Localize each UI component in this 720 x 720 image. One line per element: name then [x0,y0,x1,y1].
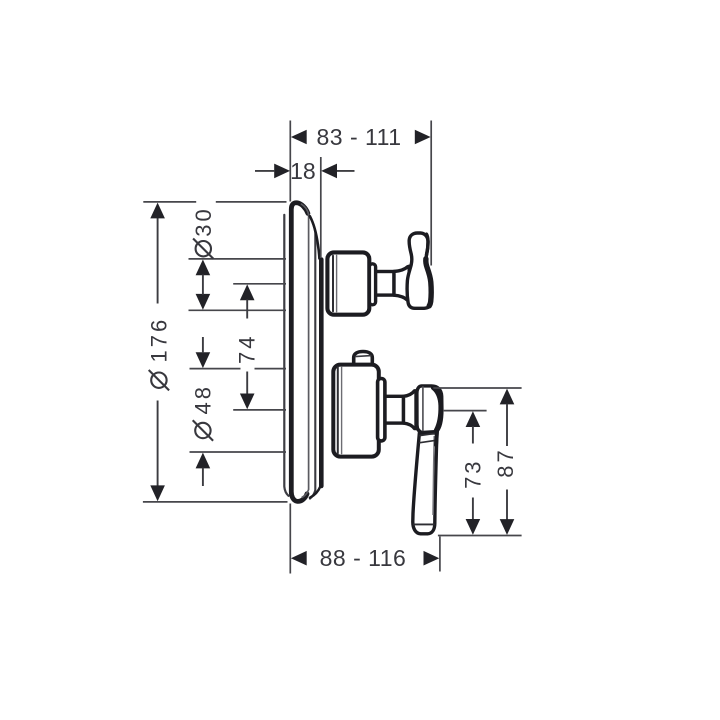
dimension D48 lower arrow [196,453,211,469]
thermostat stem [381,396,404,423]
svg-text:30: 30 [191,206,216,236]
svg-text:18: 18 [290,158,316,184]
dimension 87 label [493,447,518,477]
lever hub knob [417,386,442,433]
dimension 88-116 extension line right [439,537,441,572]
dimension 73 shafts [472,426,474,519]
dimension D176 arrow down [150,485,165,501]
dimension 88-116 arrow left [291,551,307,566]
dimension D30 label [191,206,216,259]
dimension D30 double arrow [196,260,211,310]
cross handle grip right-edge shading [426,234,431,306]
dimension D176 bottom reference line [143,501,288,503]
dimension D30 shaft [202,275,204,295]
dimension 74 bottom reference line [233,409,286,411]
dimension 18 label [290,158,316,184]
cross handle stem [375,272,395,296]
dimension D176 arrow up [150,203,165,219]
dimension D48 upper arrow [196,352,211,368]
dimension 88-116 extension line left [289,504,291,574]
thermostat flange line 2 [341,367,343,454]
escutcheon inner contour 2 [310,216,316,499]
dimension D48 shafts [202,337,204,486]
dimension D48 bottom reference line [190,451,287,453]
escutcheon front face edge [310,216,321,498]
escutcheon dome silhouette [291,203,308,502]
dimension 87 shafts [506,404,508,521]
dimension D30 top reference line [189,258,287,260]
dimension 74 arrow down [240,394,255,410]
escutcheon back plate line [284,215,288,496]
dimension 87 bottom reference line [438,535,522,537]
cross handle sleeve flange line 1 [332,256,334,311]
dimension D48 label [190,384,215,441]
dimension 18 extension line right [320,157,322,258]
dimension 73 label [460,458,485,488]
dimension 73 arrow down [466,519,481,535]
dimension 73 arrow up [466,411,481,427]
svg-text:83 - 111: 83 - 111 [317,124,402,150]
escutcheon inner contour thin [302,204,309,497]
dimension D30 bottom reference line [189,309,287,311]
svg-text:48: 48 [190,384,215,414]
cross handle sleeve flange line 2 [336,255,338,311]
cross handle sleeve nose [369,264,375,305]
svg-text:87: 87 [493,447,518,477]
dimension 87 arrow down [500,519,515,535]
dimension 83-111 label [317,124,402,150]
dimension 83-111 extension line right [430,121,432,266]
lever shaft [413,433,437,534]
dimension 74 top reference line [233,283,286,285]
dimension 74 label [234,334,259,364]
dimension D48 top reference line [190,368,287,370]
svg-text:88 - 116: 88 - 116 [320,545,407,571]
lever shaft inner right line [433,436,434,515]
thermostat body [333,365,379,457]
cross handle hub cone [394,266,409,300]
lever hub right crescent shading [433,388,441,431]
lever hub cone [404,391,417,429]
dimension D176 top reference line [143,201,286,203]
svg-text:73: 73 [460,458,485,488]
dimension 74 shafts [246,300,248,395]
dimension D176 label [146,317,171,391]
dimension 83-111 arrow right [415,130,431,145]
cross handle sleeve body [327,252,369,314]
dimension D176 shafts [157,218,159,487]
cross handle grip spindle [407,233,432,308]
thermostat flange line 1 [337,367,339,453]
dimension 83-111 extension line left [289,121,291,202]
dimension 88-116 label [320,545,407,571]
dimension 73 top reference line [444,410,487,412]
lever collar line 1 [419,433,437,436]
dimension 83-111 arrow left [291,130,307,145]
dimension 87 arrow up [500,389,515,405]
thermostat stop knob [354,352,373,367]
dimension 87 top reference line [433,387,521,389]
dimension 88-116 arrow right [424,551,440,566]
svg-text:176: 176 [146,317,171,363]
lever collar line 2 [419,440,437,443]
thermostat body nose [378,379,385,441]
thermostat stop knob seam line [355,356,372,357]
lever shaft top right shading [436,432,437,445]
lever shaft end cap line [413,523,435,525]
dimension 74 arrow up [240,284,255,300]
svg-text:74: 74 [234,334,259,364]
dimension 18 arrow right [321,164,354,179]
dimension 18 arrow left [255,164,290,179]
lever hub front face line [422,386,424,432]
